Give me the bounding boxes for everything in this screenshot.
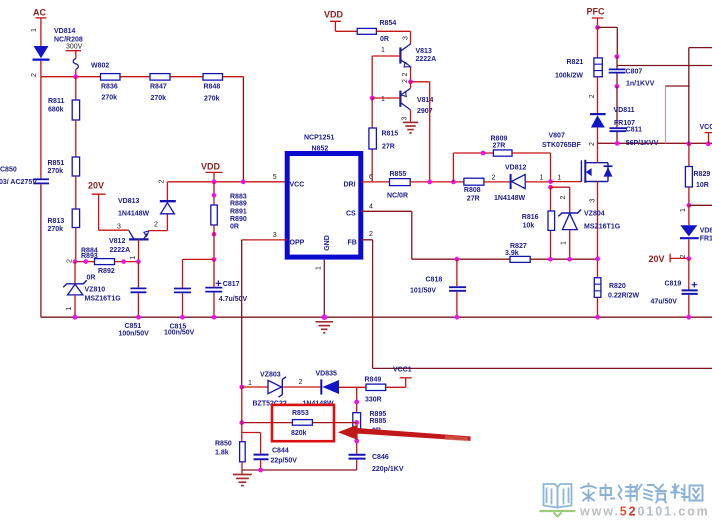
- pin 2 labels V813 V814: [402, 72, 409, 83]
- wire V807 source lead: [597, 182, 599, 278]
- svg-text:270k: 270k: [204, 96, 220, 103]
- wire emitter node to x430: [411, 82, 430, 182]
- power flag 300V: [66, 44, 83, 59]
- node CS line junctions: [455, 256, 600, 261]
- svg-text:2: 2: [680, 254, 687, 258]
- diode VD811: [590, 107, 635, 128]
- capacitor C844: [254, 448, 298, 465]
- svg-text:VCC: VCC: [290, 182, 305, 189]
- svg-text:VZ810: VZ810: [85, 287, 106, 294]
- capacitor C818: [410, 277, 466, 295]
- node DRI junctions: [427, 180, 455, 185]
- svg-text:VD813: VD813: [118, 198, 140, 205]
- svg-text:NC/0R: NC/0R: [387, 193, 408, 200]
- wire VD810 top lead: [688, 205, 690, 225]
- wire VD813 to VDD line: [166, 182, 168, 200]
- wire OPP vertical: [241, 240, 243, 387]
- wire C817 leads: [213, 259, 215, 317]
- svg-text:270k: 270k: [102, 95, 118, 102]
- watermark chinese title: [581, 484, 703, 503]
- svg-text:1: 1: [381, 47, 385, 54]
- svg-text:VD811: VD811: [614, 107, 635, 114]
- node R892 junctions: [73, 259, 141, 264]
- wire R811-R851: [75, 120, 77, 157]
- svg-text:330R: 330R: [365, 397, 382, 404]
- svg-text:22p/50V: 22p/50V: [271, 458, 298, 465]
- svg-text:100n/50V: 100n/50V: [119, 331, 150, 338]
- wire C807 top to right edge: [617, 65, 712, 67]
- svg-text:20V: 20V: [88, 181, 104, 191]
- wire R813 to R892 node: [75, 228, 77, 262]
- node R809 left pin: [481, 151, 486, 156]
- resistor R892: [81, 248, 115, 282]
- capacitor C807: [609, 69, 655, 88]
- wire CS line right part: [457, 258, 598, 260]
- svg-text:1: 1: [248, 380, 252, 387]
- capacitor C850: [0, 167, 49, 187]
- node V814 base junction: [370, 96, 375, 101]
- svg-text:N852: N852: [312, 146, 329, 153]
- svg-text:STK0765BF: STK0765BF: [542, 142, 582, 149]
- wire VZ803 to VD835: [283, 386, 320, 388]
- node gate junctions: [548, 179, 553, 189]
- wire R883 top lead: [213, 182, 215, 205]
- wire AC net vertical: [40, 18, 42, 46]
- watermark book base: [540, 511, 576, 517]
- wire R853 net: [242, 422, 357, 424]
- svg-text:MSZ16T1G: MSZ16T1G: [85, 296, 122, 303]
- resistor R854: [357, 20, 396, 43]
- svg-text:0.22R/2W: 0.22R/2W: [608, 293, 640, 300]
- wire PFC branch to C807: [598, 27, 618, 56]
- svg-text:270k: 270k: [48, 168, 64, 175]
- svg-text:100n/50V: 100n/50V: [164, 330, 195, 337]
- svg-text:VZ804: VZ804: [584, 211, 605, 218]
- svg-text:W802: W802: [91, 63, 109, 70]
- svg-text:VD835: VD835: [316, 371, 338, 378]
- svg-text:1: 1: [130, 255, 137, 259]
- label VD814 value: [54, 28, 83, 44]
- wire R848 to VDD node: [242, 77, 244, 182]
- power flag 20V right: [649, 254, 689, 264]
- svg-text:V807: V807: [549, 133, 565, 140]
- wire gate to V807: [551, 181, 582, 183]
- wire C815 top link: [183, 259, 215, 288]
- capacitor C815: [164, 289, 195, 337]
- wire VD811 to drain node: [597, 128, 599, 144]
- wire VD835 to R849: [339, 386, 366, 388]
- svg-text:R850: R850: [215, 441, 232, 448]
- wire C844 branch: [242, 433, 261, 454]
- annotation highlight rectangle: [272, 405, 334, 441]
- node VDD junctions: [212, 179, 246, 184]
- resistor R836: [101, 74, 121, 102]
- svg-text:FB: FB: [348, 240, 357, 247]
- wire V812 emitter to VD813: [149, 214, 168, 231]
- resistor R829: [685, 167, 710, 190]
- svg-text:R820: R820: [609, 283, 626, 290]
- svg-text:2: 2: [589, 94, 596, 98]
- wire R892 net: [75, 261, 138, 263]
- watermark book icon: [544, 484, 572, 508]
- svg-text:R855: R855: [390, 171, 407, 178]
- svg-text:2: 2: [589, 142, 596, 146]
- wire R820 bottom lead: [597, 297, 599, 317]
- ground symbol R850: [233, 475, 252, 486]
- svg-text:300V: 300V: [66, 44, 83, 51]
- mosfet V807: [542, 133, 613, 183]
- svg-text:NC/R208: NC/R208: [54, 37, 83, 44]
- svg-text:27R: 27R: [382, 144, 395, 151]
- power flag AC: [33, 8, 47, 18]
- svg-text:270k: 270k: [151, 95, 167, 102]
- svg-text:220p/1KV: 220p/1KV: [372, 466, 404, 473]
- resistor R883/R889/R891/R890: [211, 194, 247, 231]
- svg-text:3: 3: [589, 198, 596, 202]
- svg-text:C818: C818: [426, 277, 443, 284]
- diode VD814: [33, 46, 50, 61]
- node C807 top junction: [615, 54, 620, 59]
- zener VZ804: [558, 210, 620, 231]
- svg-text:FR10: FR10: [700, 236, 712, 243]
- svg-text:C846: C846: [372, 454, 389, 461]
- wire VZ804 branch: [551, 187, 570, 213]
- node C844 bottom junction: [258, 468, 263, 473]
- wire C819 bottom lead: [688, 295, 690, 317]
- wire VDD to R854: [335, 30, 357, 32]
- power flag VCC1: [400, 377, 412, 379]
- wire R855 to R808: [410, 181, 464, 183]
- resistor R855: [387, 171, 410, 200]
- wire R815 leads: [371, 98, 373, 182]
- jumper W802: [73, 59, 109, 70]
- svg-text:1n/1KVV: 1n/1KVV: [626, 81, 655, 88]
- wire CS net: [361, 211, 457, 259]
- svg-text:2: 2: [154, 222, 158, 229]
- node C818 bus junction: [455, 315, 460, 320]
- node VZ803 junction: [239, 385, 244, 390]
- svg-text:C844: C844: [272, 448, 289, 455]
- svg-text:0R: 0R: [380, 36, 389, 43]
- wire C846 bottom lead: [356, 460, 358, 470]
- node R820 bus junction: [595, 315, 600, 320]
- capacitor C817: [205, 281, 247, 304]
- svg-text:3: 3: [117, 224, 121, 231]
- wire R816 leads: [550, 187, 552, 259]
- wire W802 to junction: [75, 69, 77, 76]
- wire VCC1 net y368: [373, 367, 712, 369]
- node R885 bottom dot: [354, 439, 359, 444]
- transistor V813: [400, 44, 436, 67]
- wire R809 to gate node: [512, 153, 551, 181]
- svg-text:R883: R883: [230, 194, 247, 201]
- svg-text:101/50V: 101/50V: [410, 288, 436, 295]
- svg-text:C850: C850: [0, 167, 17, 174]
- svg-text:C807: C807: [626, 69, 643, 76]
- annotation arrow: [338, 425, 471, 441]
- wire VZ803 anode lead: [242, 386, 268, 388]
- svg-text:1: 1: [540, 174, 544, 181]
- svg-text:0R: 0R: [87, 275, 96, 282]
- svg-text:1: 1: [560, 241, 567, 245]
- power flag PFC: [587, 7, 606, 28]
- svg-text:AC: AC: [33, 8, 46, 18]
- resistor R811: [48, 98, 80, 120]
- svg-text:R892: R892: [98, 268, 115, 275]
- transistor V814: [400, 88, 433, 115]
- resistor R853: [291, 410, 312, 437]
- svg-text:2: 2: [492, 174, 496, 181]
- power flag VDD left: [201, 162, 223, 182]
- svg-text:1: 1: [381, 96, 385, 103]
- svg-text:47u/50V: 47u/50V: [651, 299, 678, 306]
- power flag 20V left: [88, 181, 106, 231]
- svg-text:VDD: VDD: [201, 162, 221, 172]
- wire R850 bottom to ground: [241, 462, 243, 474]
- resistor R820: [594, 278, 639, 300]
- resistor R821: [555, 58, 602, 80]
- label VD813: [118, 198, 150, 218]
- svg-text:R847: R847: [150, 84, 167, 91]
- svg-text:56P/1KVV: 56P/1KVV: [626, 140, 659, 147]
- svg-text:VDD: VDD: [324, 10, 344, 20]
- wire PFC to R821: [597, 27, 599, 58]
- svg-text:R813: R813: [48, 218, 65, 225]
- svg-text:PFC: PFC: [587, 7, 606, 17]
- wire R895 top lead: [356, 387, 358, 412]
- wire VD810 bottom lead: [688, 239, 690, 258]
- svg-text:OPP: OPP: [290, 240, 305, 247]
- ground bus y317: [41, 316, 712, 318]
- svg-text:R809: R809: [491, 136, 508, 143]
- node W802 junction: [73, 74, 78, 79]
- resistor R847: [150, 74, 170, 102]
- resistor R816: [522, 211, 555, 230]
- node PFC junction: [595, 25, 600, 30]
- resistor R851: [48, 157, 80, 176]
- svg-text:270k: 270k: [48, 226, 64, 233]
- svg-text:GND: GND: [324, 235, 331, 251]
- node drain net junctions: [615, 141, 711, 146]
- svg-text:4.7u/50V: 4.7u/50V: [219, 296, 248, 303]
- resistor R808: [464, 178, 484, 202]
- svg-text:1: 1: [557, 174, 561, 181]
- ground symbol V814: [403, 122, 418, 132]
- svg-text:3: 3: [273, 232, 277, 239]
- svg-text:1: 1: [315, 266, 322, 270]
- wire V814 collector to ground: [410, 110, 412, 122]
- wire R829 bottom lead: [688, 187, 690, 205]
- wire V807 drain lead: [597, 143, 599, 163]
- wire FB net vertical: [361, 240, 373, 369]
- wire R883 bottom lead: [213, 225, 215, 259]
- svg-text:1N4148W: 1N4148W: [494, 195, 526, 202]
- node R895 top dot: [354, 400, 359, 405]
- svg-text:R885: R885: [370, 418, 387, 425]
- capacitor C851: [119, 288, 150, 337]
- wire R885 bottom lead: [356, 429, 358, 454]
- wire R809 branch up: [453, 153, 493, 182]
- svg-text:R811: R811: [48, 98, 64, 105]
- resistor R848: [203, 74, 223, 103]
- wire drain net y143: [598, 142, 712, 144]
- wire 20V to V812 collector: [99, 229, 129, 231]
- svg-text:VD81: VD81: [700, 228, 712, 235]
- power flag VDD top: [324, 10, 344, 32]
- wire V812 base lead: [138, 239, 140, 261]
- transistor V812: [109, 230, 149, 254]
- svg-text:1: 1: [66, 306, 73, 310]
- svg-text:C851: C851: [125, 323, 142, 330]
- svg-text:2222A: 2222A: [110, 247, 131, 254]
- svg-text:R893: R893: [81, 253, 98, 260]
- wire top net y77: [41, 76, 244, 78]
- svg-text:V814: V814: [417, 97, 433, 104]
- wire C851 leads: [137, 262, 139, 318]
- wire AC line down left: [40, 77, 42, 179]
- resistor R895/R885: [353, 411, 387, 435]
- wire VD812 to gate node: [525, 181, 550, 183]
- svg-text:C819: C819: [665, 281, 682, 288]
- svg-text:VZ803: VZ803: [260, 372, 281, 379]
- svg-text:2: 2: [66, 259, 73, 263]
- svg-text:VD814: VD814: [54, 28, 76, 35]
- wire V814 base: [372, 97, 400, 99]
- node C817 top junction: [212, 257, 217, 262]
- svg-text:0R: 0R: [230, 224, 239, 231]
- svg-text:R895: R895: [370, 411, 387, 418]
- transformer corner top right: [689, 48, 712, 144]
- svg-text:VD812: VD812: [505, 165, 527, 172]
- svg-text:03/ AC275V: 03/ AC275V: [0, 179, 37, 186]
- wire GND lead: [323, 260, 325, 318]
- wire C815 bottom lead: [182, 293, 184, 317]
- svg-text:2: 2: [402, 79, 409, 83]
- svg-text:R848: R848: [204, 84, 221, 91]
- svg-text:27R: 27R: [467, 196, 480, 203]
- power flag VCC right: [700, 124, 712, 144]
- wire C850 to bus: [40, 185, 42, 318]
- wire R811 top: [75, 77, 77, 100]
- svg-text:R815: R815: [382, 131, 399, 138]
- wire VZ804 bottom lead: [569, 230, 571, 260]
- node R883 pin dots: [212, 193, 217, 237]
- svg-text:1: 1: [680, 208, 687, 212]
- svg-text:R891: R891: [230, 209, 247, 216]
- node R853 left junction: [239, 420, 244, 425]
- svg-text:2: 2: [402, 72, 409, 76]
- wire R808 to VD812: [484, 181, 510, 183]
- svg-text:R816: R816: [522, 214, 539, 221]
- svg-text:2: 2: [299, 379, 303, 386]
- svg-text:2: 2: [31, 73, 38, 77]
- svg-text:VCC1: VCC1: [393, 367, 412, 374]
- svg-text:R829: R829: [694, 171, 711, 178]
- svg-text:CS: CS: [346, 211, 356, 218]
- resistor R815: [369, 128, 398, 151]
- svg-text:R854: R854: [380, 20, 397, 27]
- svg-text:100k/2W: 100k/2W: [555, 73, 583, 80]
- svg-text:C817: C817: [223, 281, 240, 288]
- wire C807 to C811: [616, 86, 618, 143]
- ground symbol IC: [316, 322, 334, 333]
- node C807 bottom junction: [615, 84, 620, 89]
- svg-text:10R: 10R: [696, 182, 709, 189]
- wire diode to bus: [40, 61, 42, 77]
- svg-text:C811: C811: [626, 127, 642, 134]
- diode VD813: [160, 201, 176, 214]
- wire DRI stub: [361, 181, 390, 183]
- svg-text:R849: R849: [365, 377, 382, 384]
- wire C818 leads: [456, 259, 458, 317]
- wire snubber link horizontal: [666, 85, 690, 87]
- zener VZ810: [63, 280, 121, 302]
- svg-text:3.9k: 3.9k: [505, 250, 519, 257]
- svg-text:1.8k: 1.8k: [215, 450, 229, 457]
- diode VD835: [303, 371, 340, 408]
- svg-text:20V: 20V: [649, 254, 665, 264]
- wire V814 emitter top: [410, 82, 412, 89]
- wire C807 leads: [616, 57, 618, 87]
- wire V813 emitter down: [410, 67, 412, 82]
- svg-text:VCC: VCC: [700, 124, 712, 131]
- zener VZ803: [253, 372, 287, 408]
- node 20V junction: [686, 256, 691, 261]
- node C819 bus junction: [686, 315, 691, 320]
- svg-text:DRI: DRI: [344, 182, 356, 189]
- resistor R809: [491, 136, 513, 157]
- svg-text:R821: R821: [567, 59, 584, 66]
- wire R854 to V813 collector: [376, 31, 410, 44]
- svg-text:5: 5: [273, 174, 277, 181]
- node V813 emitter junction: [408, 79, 413, 84]
- wire C844 bottom lead: [260, 460, 262, 470]
- svg-text:R851: R851: [48, 160, 65, 167]
- svg-text:1: 1: [31, 28, 38, 32]
- svg-text:V813: V813: [416, 48, 432, 55]
- svg-text:V812: V812: [109, 238, 125, 245]
- svg-text:2: 2: [369, 231, 373, 238]
- node R885 mid dot: [354, 420, 359, 425]
- wire snubber link vertical: [665, 86, 667, 143]
- capacitor C811: [610, 127, 643, 134]
- wire C819 top lead: [688, 259, 690, 290]
- svg-text:MSZ16T1G: MSZ16T1G: [584, 224, 621, 231]
- svg-text:10k: 10k: [523, 223, 535, 230]
- resistor R813: [48, 209, 80, 233]
- wire VDD net y182: [167, 181, 284, 183]
- node bus junctions left: [73, 315, 217, 320]
- svg-text:R889: R889: [230, 201, 247, 208]
- wire R851-R813: [75, 176, 77, 209]
- wire VCC rail down: [688, 144, 690, 167]
- svg-text:2: 2: [560, 195, 567, 199]
- resistor R850: [215, 441, 245, 462]
- svg-text:R808: R808: [464, 187, 481, 194]
- capacitor C819: [651, 281, 698, 306]
- diode VD810: [680, 225, 712, 242]
- resistor R849: [365, 377, 386, 404]
- wire VZ810 leads: [74, 262, 76, 318]
- capacitor C846: [349, 454, 404, 473]
- svg-text:820k: 820k: [291, 430, 307, 437]
- wire R821 to VD811: [597, 77, 599, 113]
- svg-text:680k: 680k: [48, 107, 64, 114]
- op-amp U1 IC N852 NCP1251 body: [287, 135, 361, 258]
- wire stub right y205: [689, 204, 712, 206]
- svg-text:2: 2: [158, 179, 165, 183]
- wire bottom net y470: [242, 469, 357, 471]
